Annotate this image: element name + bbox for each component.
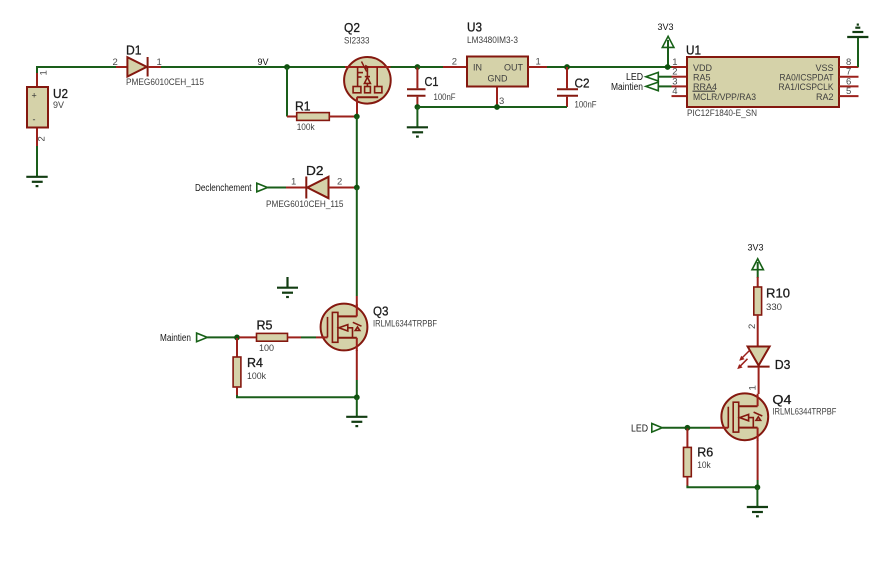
ground under Q4	[747, 507, 768, 516]
svg-text:D2: D2	[306, 164, 324, 178]
svg-text:RA0/ICSPDAT: RA0/ICSPDAT	[780, 73, 834, 83]
resistor R4 100k	[233, 338, 266, 396]
wire LED terminal to Q4 gate	[662, 427, 710, 429]
transistor Q2 SI2333 (P-MOSFET)	[344, 21, 391, 117]
svg-text:R6: R6	[697, 446, 713, 460]
svg-text:2: 2	[337, 177, 342, 188]
junction at C2 top	[564, 64, 570, 70]
transistor Q4 IRLML6344TRPBF (N-MOSFET)	[710, 393, 837, 441]
wire R1 branch down	[286, 67, 288, 117]
svg-text:2: 2	[452, 57, 457, 68]
svg-text:D1: D1	[126, 44, 142, 58]
svg-text:2: 2	[37, 136, 48, 141]
capacitor C2 100nF	[557, 67, 597, 110]
wire gate net down to Q3 drain	[356, 188, 358, 297]
transistor Q3 IRLML6344TRPBF (N-MOSFET)	[316, 304, 437, 351]
svg-text:2: 2	[747, 324, 758, 329]
floating ground symbol	[277, 277, 298, 297]
svg-text:5: 5	[846, 86, 851, 97]
junction at 9V rail / R1 branch	[284, 64, 290, 70]
terminal LED (bottom)	[631, 424, 662, 435]
ground under Q3	[346, 417, 367, 426]
wire gate net down to D2 junction	[356, 117, 358, 188]
junction Maintien / R5 / R4	[234, 335, 240, 341]
svg-text:MCLR/VPP/RA3: MCLR/VPP/RA3	[693, 92, 756, 102]
svg-text:LED: LED	[631, 424, 648, 435]
svg-text:Maintien: Maintien	[611, 82, 643, 93]
svg-text:R10: R10	[766, 287, 790, 301]
wire LED terminal to U1 RA5	[658, 76, 671, 78]
svg-text:Maintien: Maintien	[160, 333, 191, 344]
junction LED / R6	[685, 425, 691, 431]
svg-text:R1: R1	[295, 100, 311, 114]
svg-text:OUT: OUT	[504, 63, 524, 73]
svg-text:RA2: RA2	[816, 92, 834, 102]
svg-text:3V3: 3V3	[658, 22, 674, 32]
svg-text:PMEG6010CEH_115: PMEG6010CEH_115	[266, 199, 344, 209]
svg-text:9V: 9V	[258, 57, 269, 67]
svg-text:100nF: 100nF	[575, 100, 597, 110]
junction Q4 source / R6 / ground	[755, 484, 761, 490]
junction D2 / gate net	[354, 185, 360, 191]
svg-text:U3: U3	[467, 21, 482, 35]
svg-text:100nF: 100nF	[434, 92, 456, 102]
terminal Declenchement	[195, 183, 268, 194]
junction at U3 GND pin	[494, 104, 500, 110]
junction 3V3 / U1 VDD	[665, 64, 671, 70]
svg-text:Q3: Q3	[373, 305, 389, 319]
diode D1 PMEG6010CEH_115	[116, 44, 204, 88]
svg-text:100k: 100k	[247, 371, 266, 381]
svg-text:+: +	[32, 91, 37, 101]
svg-text:100: 100	[259, 343, 274, 353]
svg-text:U2: U2	[53, 87, 68, 101]
resistor R5 100	[239, 319, 301, 354]
wire Q3 drain lead	[356, 296, 358, 316]
power symbol 3V3 (bottom right)	[748, 243, 764, 279]
svg-text:3: 3	[499, 96, 504, 107]
svg-text:1: 1	[39, 70, 50, 75]
svg-text:RA1/ICSPCLK: RA1/ICSPCLK	[779, 82, 834, 92]
terminal Maintien	[160, 333, 207, 344]
wire Declenchement to D2	[268, 187, 287, 189]
wire C1 to U3 IN	[417, 66, 443, 68]
wire Q2 drain rail to C1	[391, 66, 444, 68]
svg-text:IN: IN	[473, 63, 482, 73]
svg-text:-: -	[33, 115, 36, 125]
svg-text:Q4: Q4	[772, 393, 791, 407]
resistor R6 10k	[684, 429, 714, 487]
svg-text:100k: 100k	[297, 122, 315, 132]
svg-text:VSS: VSS	[815, 63, 833, 73]
wire Maintien terminal to U1 RRA4	[658, 85, 671, 87]
svg-text:D3: D3	[775, 358, 791, 372]
wire battery bottom to ground	[36, 146, 38, 177]
resistor R1 100k	[287, 100, 357, 133]
wire battery top to D1	[37, 67, 116, 73]
ground under C1	[407, 127, 428, 136]
svg-text:C2: C2	[575, 77, 590, 91]
svg-text:GND: GND	[488, 74, 509, 84]
wire R6 bottom to Q4 source node	[687, 486, 757, 488]
svg-text:Q2: Q2	[344, 21, 360, 35]
resistor R10 330	[754, 277, 790, 347]
svg-text:IRLML6344TRPBF: IRLML6344TRPBF	[373, 319, 437, 329]
wire Q4 source down	[757, 440, 759, 480]
svg-text:VDD: VDD	[693, 63, 713, 73]
diode D2 PMEG6010CEH_115	[266, 164, 357, 209]
svg-text:SI2333: SI2333	[344, 36, 370, 46]
svg-text:LM3480IM3-3: LM3480IM3-3	[467, 35, 518, 45]
regulator U3 LM3480IM3-3	[443, 21, 547, 108]
wire GND rail C1-U3-C2	[417, 106, 567, 108]
svg-text:9V: 9V	[53, 100, 64, 110]
wire Maintien to R5/R4 junction	[207, 336, 239, 338]
junction Q3 source / R4 / ground	[354, 394, 360, 400]
wire R5 to Q3 gate	[301, 336, 316, 338]
svg-text:1: 1	[536, 57, 541, 68]
svg-text:10k: 10k	[697, 460, 711, 470]
junction at C1 top	[415, 64, 421, 70]
svg-text:1: 1	[748, 385, 759, 390]
svg-text:PMEG6010CEH_115: PMEG6010CEH_115	[126, 77, 204, 87]
svg-text:R5: R5	[257, 319, 273, 333]
IC U1 PIC12F1840-E_SN	[672, 44, 859, 118]
svg-text:330: 330	[766, 302, 782, 312]
wire D1 to Q2 (9V rail)	[161, 66, 345, 68]
svg-text:1: 1	[291, 177, 296, 188]
wire C1 bottom to ground	[416, 107, 418, 127]
svg-text:3V3: 3V3	[748, 243, 764, 253]
wire Q3 source down	[356, 350, 358, 380]
svg-text:R4: R4	[247, 356, 263, 370]
wire to ground under Q3	[356, 397, 358, 417]
LED D3	[737, 347, 790, 395]
ground under U2	[26, 177, 47, 186]
svg-text:C1: C1	[425, 75, 439, 89]
ground above U1 VSS (mirrored)	[847, 25, 868, 37]
terminal LED (U1 side)	[626, 72, 658, 83]
junction R1 / Q2 gate / D2 net	[354, 114, 360, 120]
capacitor C1 100nF	[407, 67, 456, 107]
svg-text:2: 2	[113, 57, 118, 68]
wire to ground under Q4	[756, 487, 758, 507]
svg-text:RA5: RA5	[693, 73, 711, 83]
svg-text:PIC12F1840-E_SN: PIC12F1840-E_SN	[687, 108, 757, 118]
wire R4 bottom to Q3 source node	[237, 395, 357, 397]
power symbol 3V3 (top)	[658, 22, 674, 67]
svg-text:IRLML6344TRPBF: IRLML6344TRPBF	[772, 407, 836, 417]
svg-text:4: 4	[672, 86, 677, 97]
svg-text:U1: U1	[686, 44, 701, 58]
terminal Maintien (U1 side)	[611, 82, 658, 93]
wire U1 VSS up to ground	[857, 37, 859, 67]
wire U3 OUT to U1 (3V3 rail)	[547, 66, 672, 68]
junction at C1 bottom	[415, 104, 421, 110]
svg-text:Declenchement: Declenchement	[195, 183, 252, 194]
battery U2	[27, 72, 68, 147]
